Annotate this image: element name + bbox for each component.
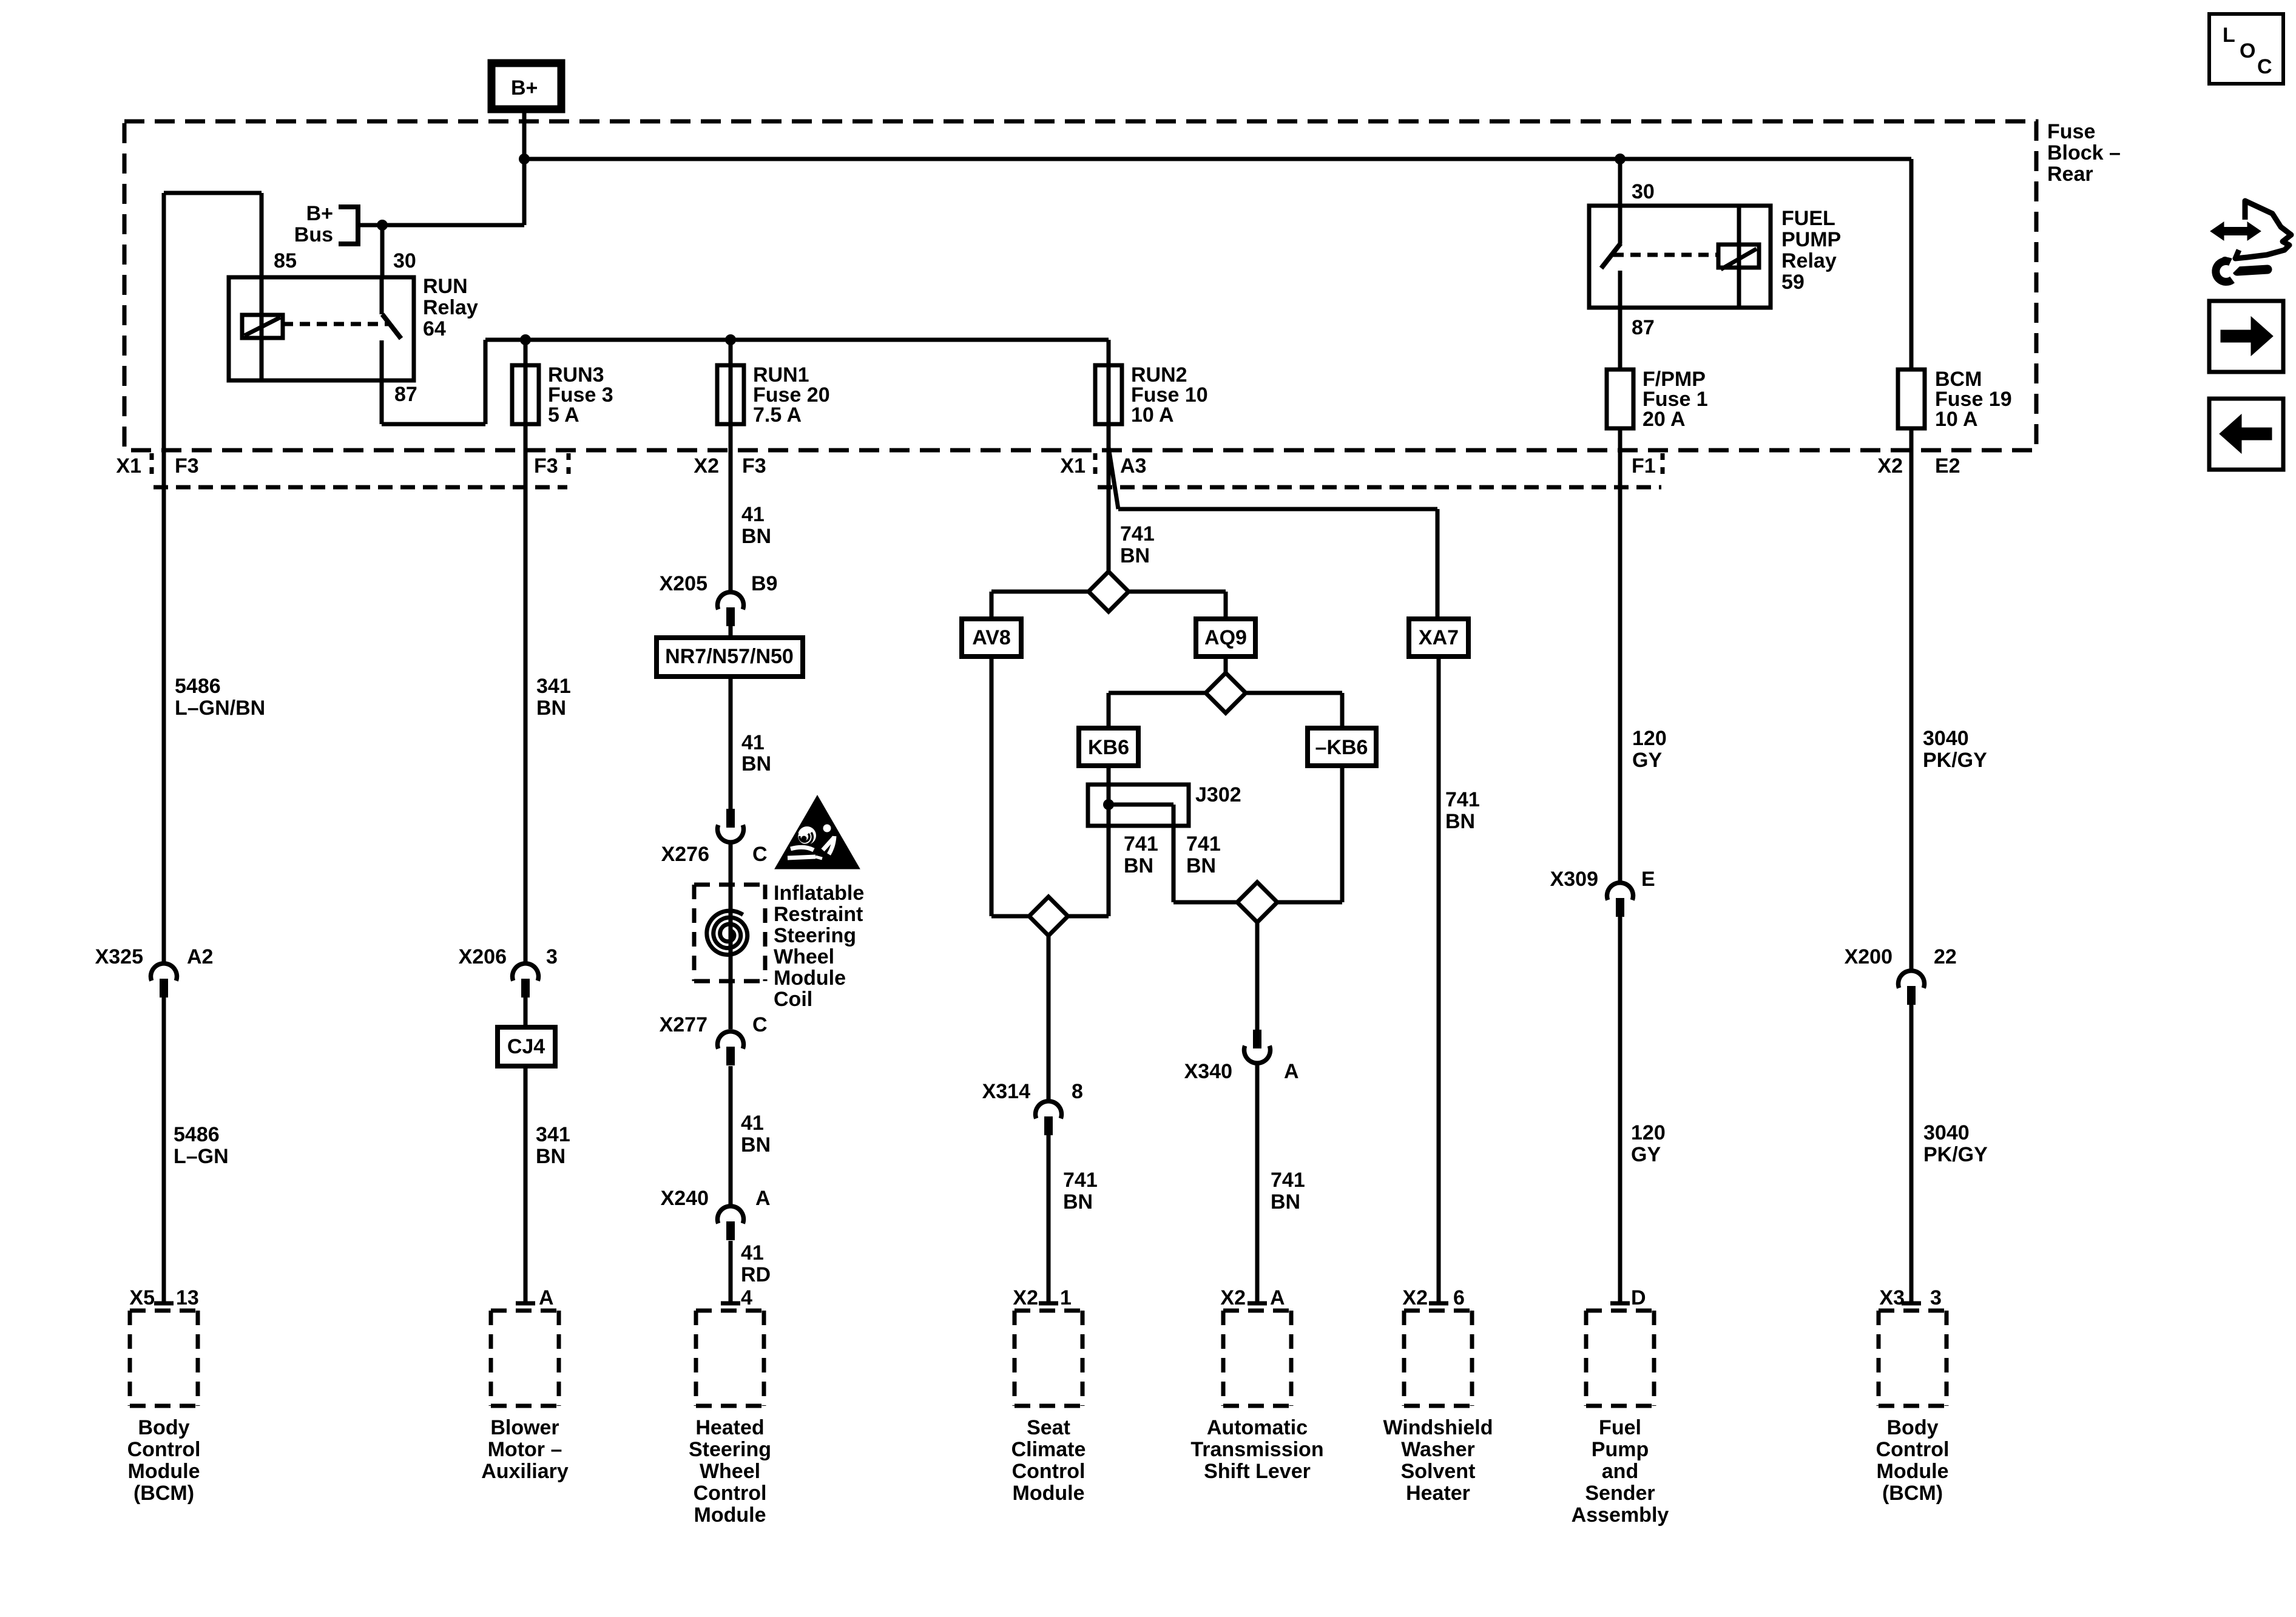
svg-text:A2: A2 (187, 945, 213, 968)
svg-text:X2: X2 (694, 454, 719, 478)
svg-text:BN: BN (1124, 854, 1153, 877)
svg-text:Sender: Sender (1585, 1482, 1655, 1505)
svg-text:X2: X2 (1013, 1286, 1038, 1309)
svg-text:BN: BN (741, 752, 771, 775)
svg-text:X1: X1 (116, 454, 141, 478)
svg-text:13: 13 (176, 1286, 199, 1309)
svg-text:O: O (2240, 39, 2255, 62)
svg-text:741: 741 (1445, 788, 1480, 811)
svg-text:BN: BN (536, 697, 566, 720)
svg-text:41: 41 (741, 503, 765, 526)
svg-text:GY: GY (1631, 1143, 1661, 1166)
svg-text:4: 4 (741, 1286, 752, 1309)
svg-text:120: 120 (1631, 1121, 1666, 1144)
svg-text:10 A: 10 A (1935, 408, 1978, 431)
svg-text:BN: BN (536, 1145, 566, 1168)
svg-text:(BCM): (BCM) (133, 1482, 194, 1505)
svg-text:20 A: 20 A (1643, 408, 1686, 431)
svg-text:Auxiliary: Auxiliary (481, 1460, 569, 1483)
svg-text:741: 741 (1271, 1169, 1305, 1192)
svg-text:Module: Module (774, 967, 846, 990)
svg-text:A: A (539, 1286, 554, 1309)
svg-text:5486: 5486 (174, 1123, 220, 1146)
svg-text:B+: B+ (511, 76, 538, 100)
svg-text:B9: B9 (751, 572, 777, 595)
svg-text:(BCM): (BCM) (1882, 1482, 1943, 1505)
svg-text:X5: X5 (129, 1286, 155, 1309)
svg-text:741: 741 (1124, 832, 1158, 856)
svg-text:Module: Module (694, 1504, 766, 1527)
svg-text:6: 6 (1453, 1286, 1465, 1309)
svg-text:F3: F3 (742, 454, 766, 478)
svg-text:3040: 3040 (1923, 1121, 1970, 1144)
svg-text:Assembly: Assembly (1572, 1504, 1669, 1527)
svg-text:D: D (1631, 1286, 1646, 1309)
svg-text:PK/GY: PK/GY (1923, 1143, 1988, 1166)
svg-text:L–GN/BN: L–GN/BN (175, 697, 265, 720)
svg-text:F3: F3 (534, 454, 558, 478)
svg-text:A: A (1270, 1286, 1285, 1309)
svg-text:XA7: XA7 (1419, 626, 1459, 649)
svg-text:87: 87 (394, 383, 417, 406)
svg-text:X2: X2 (1877, 454, 1903, 478)
svg-text:X325: X325 (95, 945, 143, 968)
svg-text:341: 341 (536, 1123, 570, 1146)
svg-text:Module: Module (128, 1460, 200, 1483)
svg-text:CJ4: CJ4 (507, 1035, 545, 1058)
svg-text:85: 85 (274, 249, 297, 272)
svg-text:Control: Control (1876, 1438, 1950, 1461)
svg-text:Fuse: Fuse (2047, 120, 2095, 143)
svg-text:10 A: 10 A (1131, 403, 1174, 427)
svg-text:F1: F1 (1632, 454, 1656, 478)
svg-text:BN: BN (1063, 1190, 1093, 1214)
svg-text:Relay: Relay (1781, 249, 1837, 272)
svg-text:120: 120 (1632, 727, 1667, 750)
svg-text:L–GN: L–GN (174, 1145, 229, 1168)
svg-text:BN: BN (1120, 544, 1150, 567)
svg-text:Solvent: Solvent (1401, 1460, 1476, 1483)
svg-text:64: 64 (423, 317, 446, 340)
svg-text:AV8: AV8 (972, 626, 1011, 649)
svg-text:X276: X276 (661, 843, 709, 866)
svg-text:NR7/N57/N50: NR7/N57/N50 (665, 645, 794, 668)
svg-text:X200: X200 (1845, 945, 1893, 968)
svg-text:PK/GY: PK/GY (1923, 749, 1987, 772)
svg-text:Module: Module (1013, 1482, 1085, 1505)
svg-text:C: C (752, 843, 768, 866)
svg-text:X340: X340 (1184, 1060, 1232, 1083)
svg-text:41: 41 (741, 1112, 764, 1135)
svg-text:Seat: Seat (1027, 1416, 1070, 1439)
svg-text:5 A: 5 A (548, 403, 579, 427)
svg-text:X205: X205 (660, 572, 707, 595)
svg-text:Transmission: Transmission (1190, 1438, 1323, 1461)
svg-text:Inflatable: Inflatable (774, 882, 864, 905)
svg-text:FUEL: FUEL (1781, 207, 1835, 230)
svg-text:RD: RD (741, 1263, 771, 1286)
svg-text:–KB6: –KB6 (1315, 736, 1368, 759)
svg-text:Heater: Heater (1406, 1482, 1470, 1505)
svg-text:X1: X1 (1060, 454, 1086, 478)
svg-text:A3: A3 (1120, 454, 1146, 478)
svg-text:PUMP: PUMP (1781, 228, 1841, 251)
svg-text:A: A (755, 1187, 771, 1210)
svg-text:GY: GY (1632, 749, 1662, 772)
svg-text:Shift Lever: Shift Lever (1204, 1460, 1311, 1483)
svg-text:Control: Control (1012, 1460, 1086, 1483)
svg-text:3: 3 (1930, 1286, 1942, 1309)
svg-text:BN: BN (1445, 810, 1475, 833)
svg-text:Bus: Bus (294, 223, 333, 246)
svg-text:22: 22 (1934, 945, 1957, 968)
svg-text:Pump: Pump (1592, 1438, 1649, 1461)
svg-text:3040: 3040 (1923, 727, 1969, 750)
svg-text:Coil: Coil (774, 988, 812, 1011)
svg-text:L: L (2223, 24, 2235, 47)
svg-text:41: 41 (741, 1241, 764, 1264)
svg-text:Wheel: Wheel (774, 945, 834, 968)
svg-text:1: 1 (1060, 1286, 1072, 1309)
svg-text:Washer: Washer (1401, 1438, 1475, 1461)
svg-text:Motor –: Motor – (488, 1438, 562, 1461)
svg-text:Fuel: Fuel (1599, 1416, 1641, 1439)
svg-text:Climate: Climate (1011, 1438, 1086, 1461)
svg-text:E2: E2 (1935, 454, 1960, 478)
svg-text:341: 341 (536, 675, 571, 698)
svg-text:Windshield: Windshield (1383, 1416, 1493, 1439)
svg-text:Wheel: Wheel (700, 1460, 760, 1483)
svg-text:41: 41 (741, 731, 765, 754)
svg-text:5486: 5486 (175, 675, 221, 698)
svg-text:X206: X206 (459, 945, 507, 968)
svg-text:741: 741 (1063, 1169, 1098, 1192)
svg-text:30: 30 (1632, 180, 1655, 203)
svg-text:Body: Body (138, 1416, 190, 1439)
svg-text:Control: Control (694, 1482, 767, 1505)
svg-text:BN: BN (1186, 854, 1216, 877)
svg-text:Restraint: Restraint (774, 903, 863, 926)
svg-text:C: C (2257, 55, 2272, 78)
svg-text:Control: Control (127, 1438, 201, 1461)
svg-text:X3: X3 (1879, 1286, 1905, 1309)
svg-text:Rear: Rear (2047, 163, 2093, 186)
svg-text:X314: X314 (982, 1080, 1030, 1103)
svg-text:X240: X240 (661, 1187, 709, 1210)
svg-text:7.5 A: 7.5 A (753, 403, 802, 427)
svg-text:Block –: Block – (2047, 141, 2121, 164)
svg-text:Body: Body (1887, 1416, 1939, 1439)
svg-text:F3: F3 (175, 454, 199, 478)
svg-text:59: 59 (1781, 271, 1805, 294)
svg-text:8: 8 (1072, 1080, 1083, 1103)
svg-text:Relay: Relay (423, 296, 478, 319)
svg-text:B+: B+ (306, 202, 333, 225)
svg-text:Steering: Steering (689, 1438, 771, 1461)
svg-text:3: 3 (546, 945, 558, 968)
svg-text:X2: X2 (1402, 1286, 1428, 1309)
svg-text:AQ9: AQ9 (1204, 626, 1247, 649)
svg-text:741: 741 (1186, 832, 1221, 856)
svg-text:Heated: Heated (695, 1416, 764, 1439)
svg-text:Blower: Blower (490, 1416, 559, 1439)
svg-text:X2: X2 (1220, 1286, 1246, 1309)
svg-text:30: 30 (393, 249, 416, 272)
svg-text:87: 87 (1632, 316, 1655, 339)
svg-text:A: A (1284, 1060, 1299, 1083)
svg-text:X309: X309 (1550, 868, 1598, 891)
svg-text:RUN: RUN (423, 275, 468, 298)
svg-text:and: and (1602, 1460, 1638, 1483)
svg-text:J302: J302 (1195, 783, 1241, 806)
svg-text:BN: BN (741, 525, 771, 548)
svg-text:Steering: Steering (774, 924, 856, 947)
svg-text:BN: BN (1271, 1190, 1300, 1214)
svg-text:KB6: KB6 (1088, 736, 1129, 759)
svg-text:X277: X277 (660, 1013, 707, 1036)
svg-text:E: E (1641, 868, 1655, 891)
svg-text:C: C (752, 1013, 768, 1036)
svg-text:Automatic: Automatic (1207, 1416, 1308, 1439)
svg-text:Module: Module (1877, 1460, 1949, 1483)
svg-text:741: 741 (1120, 522, 1155, 545)
svg-text:BN: BN (741, 1133, 771, 1156)
